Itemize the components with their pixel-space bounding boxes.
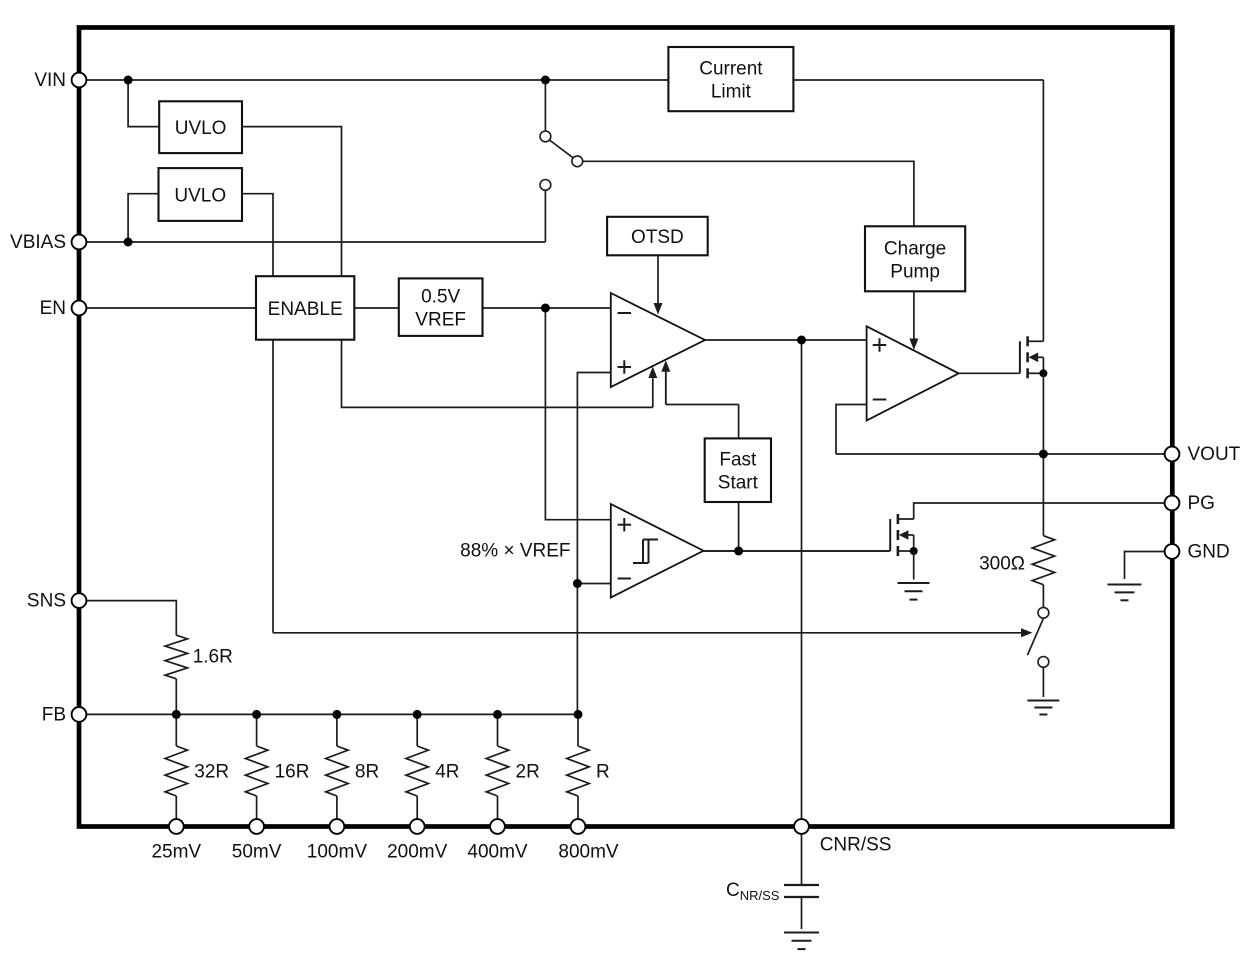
svg-text:25mV: 25mV (151, 842, 201, 863)
svg-text:Fast: Fast (719, 450, 757, 471)
svg-text:PG: PG (1188, 493, 1215, 514)
svg-text:4R: 4R (435, 762, 459, 783)
svg-text:1.6R: 1.6R (193, 647, 233, 668)
svg-text:100mV: 100mV (307, 842, 368, 863)
svg-text:Start: Start (718, 473, 759, 494)
svg-text:R: R (596, 762, 610, 783)
svg-text:FB: FB (42, 705, 66, 726)
svg-text:Charge: Charge (884, 238, 946, 259)
svg-text:SNS: SNS (27, 591, 66, 612)
svg-text:0.5V: 0.5V (421, 287, 460, 308)
svg-text:88% × VREF: 88% × VREF (460, 541, 570, 562)
svg-text:50mV: 50mV (232, 842, 282, 863)
svg-text:800mV: 800mV (558, 842, 619, 863)
svg-text:UVLO: UVLO (175, 118, 227, 139)
svg-text:300Ω: 300Ω (979, 554, 1025, 575)
svg-text:VREF: VREF (415, 310, 466, 331)
svg-text:VOUT: VOUT (1188, 444, 1241, 465)
svg-text:VIN: VIN (34, 70, 66, 91)
svg-text:Limit: Limit (711, 82, 752, 103)
svg-text:ENABLE: ENABLE (268, 299, 343, 320)
svg-text:VBIAS: VBIAS (10, 232, 66, 253)
svg-text:Pump: Pump (890, 261, 940, 282)
svg-text:8R: 8R (355, 762, 379, 783)
svg-text:OTSD: OTSD (631, 227, 684, 248)
svg-text:GND: GND (1188, 542, 1230, 563)
svg-text:CNR/SS: CNR/SS (820, 835, 892, 856)
svg-text:UVLO: UVLO (174, 186, 226, 207)
svg-text:32R: 32R (194, 762, 229, 783)
svg-text:200mV: 200mV (387, 842, 448, 863)
svg-text:16R: 16R (275, 762, 310, 783)
svg-text:2R: 2R (516, 762, 540, 783)
svg-text:EN: EN (40, 298, 66, 319)
svg-text:400mV: 400mV (467, 842, 528, 863)
svg-text:Current: Current (699, 59, 763, 80)
